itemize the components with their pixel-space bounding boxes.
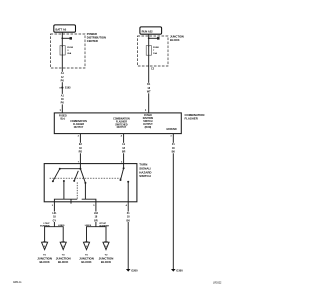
- svg-text:BLOCK: BLOCK: [101, 260, 112, 264]
- label turn signal/hazard switch: [139, 163, 151, 179]
- wire label Z1 18 BK: [125, 212, 131, 223]
- mechanical link (dashed vertical): [76, 182, 78, 199]
- contact node: [52, 180, 54, 182]
- svg-text:BLOCK: BLOCK: [170, 38, 180, 42]
- svg-text:G200: G200: [131, 269, 138, 273]
- svg-text:LR0322: LR0322: [213, 282, 222, 285]
- svg-text:BUMPER: BUMPER: [100, 225, 110, 227]
- ground G200: [126, 269, 138, 273]
- wire pdc to flasher: [61, 68, 63, 113]
- svg-text:JUNCTION: JUNCTION: [170, 35, 184, 39]
- svg-text:3: 3: [52, 205, 54, 207]
- wire batt to fuse: [61, 32, 63, 47]
- switch arm left: [53, 169, 60, 182]
- svg-text:BUMPER: BUMPER: [40, 225, 50, 227]
- svg-text:L61: L61: [52, 212, 57, 215]
- svg-text:FLASHER: FLASHER: [116, 120, 127, 123]
- svg-text:PK: PK: [61, 102, 65, 105]
- svg-text:4: 4: [126, 204, 128, 207]
- label to junction block 2: [56, 255, 71, 264]
- splice S163: [59, 87, 71, 90]
- battery feed BATT A0: [54, 25, 76, 32]
- wire internal bottom left: [54, 199, 77, 202]
- svg-text:LINES: LINES: [85, 225, 92, 227]
- svg-text:DISTRIBUTION: DISTRIBUTION: [87, 36, 106, 40]
- wire flasher output to switch: [79, 134, 81, 164]
- label junction block: [170, 35, 184, 43]
- svg-text:G300: G300: [176, 269, 183, 273]
- svg-text:FUSED: FUSED: [59, 116, 67, 118]
- svg-text:L62: L62: [94, 212, 99, 215]
- pin label fused ignition switch output (run): [143, 115, 154, 129]
- svg-text:5: 5: [93, 205, 95, 207]
- wire left turn output: [53, 202, 55, 227]
- label to junction block 4: [99, 255, 114, 264]
- node split left: [45, 227, 64, 242]
- svg-text:BR: BR: [122, 150, 126, 153]
- svg-text:CENTER: CENTER: [87, 39, 98, 43]
- svg-text:LINES: LINES: [58, 225, 65, 227]
- svg-text:OUTPUT: OUTPUT: [143, 124, 153, 126]
- svg-text:BATT A0: BATT A0: [56, 27, 67, 31]
- wire flasher switched output to switch: [123, 134, 125, 164]
- pin label fused B(+): [59, 116, 67, 121]
- svg-text:FLASHER: FLASHER: [73, 123, 84, 126]
- wire switch ground to G200: [127, 202, 129, 269]
- contact node: [63, 180, 65, 182]
- wire internal bottom right: [82, 199, 96, 202]
- svg-text:8: 8: [59, 88, 61, 90]
- svg-text:GY: GY: [53, 219, 57, 222]
- wire fuse to jb edge: [148, 55, 150, 66]
- wire label D1 18 WT: [146, 83, 152, 94]
- wire label A1 18 PK: [59, 94, 65, 105]
- pin label combination flasher switched output: [113, 117, 130, 129]
- svg-text:COMBINATION: COMBINATION: [113, 117, 130, 120]
- wire flasher ground to G300: [172, 134, 174, 269]
- combination flasher U1: [54, 113, 181, 134]
- svg-text:BLOCK: BLOCK: [81, 260, 92, 264]
- switch internal: pin 2 drop: [123, 164, 125, 169]
- fuse value label: [153, 47, 159, 55]
- svg-text:PK: PK: [61, 79, 65, 82]
- svg-text:FUSE: FUSE: [153, 47, 159, 49]
- svg-text:WT: WT: [147, 90, 151, 93]
- svg-text:SWITCHED: SWITCHED: [115, 124, 128, 126]
- contact node: [84, 182, 86, 184]
- ignition feed RUN A22: [140, 27, 162, 34]
- wire run to fuse: [148, 34, 150, 46]
- fuse F7 10A: [146, 46, 151, 56]
- svg-text:OUTPUT: OUTPUT: [117, 127, 127, 129]
- svg-text:4: 4: [121, 134, 123, 137]
- wire label Z1 18 BK: [170, 143, 176, 154]
- svg-text:(RUN): (RUN): [145, 127, 152, 129]
- stub pin 8: [70, 199, 72, 203]
- svg-text:7: 7: [153, 50, 155, 52]
- svg-text:3: 3: [170, 135, 172, 137]
- wire jb to flasher: [148, 66, 150, 113]
- svg-text:IGNITION: IGNITION: [143, 118, 154, 120]
- wire contact drop: [63, 181, 65, 199]
- branch label rt/up bumper: [100, 223, 110, 228]
- svg-text:POWER: POWER: [87, 32, 97, 36]
- node junction in PDC: [61, 37, 72, 40]
- contact node: [120, 179, 122, 181]
- svg-text:GROUND: GROUND: [166, 129, 177, 131]
- label to junction block 3: [79, 255, 94, 264]
- wire label L61 18 GY: [51, 212, 57, 223]
- svg-text:B(+): B(+): [61, 118, 66, 120]
- svg-text:10A: 10A: [153, 52, 157, 55]
- node: [123, 167, 125, 169]
- wire contact drop: [84, 183, 86, 199]
- wire label L62 18 BR: [93, 212, 99, 223]
- connector C (to junction block): [83, 242, 89, 250]
- wire ground leg: [127, 182, 129, 202]
- svg-text:RD: RD: [79, 150, 83, 153]
- svg-text:SWITCH: SWITCH: [143, 121, 153, 123]
- svg-text:BLOCK: BLOCK: [58, 260, 69, 264]
- switch arm center: [74, 171, 78, 181]
- svg-text:S163: S163: [65, 87, 71, 90]
- svg-text:COMBINATION: COMBINATION: [70, 120, 87, 123]
- connector B (to junction block): [60, 242, 66, 250]
- junction block (dashed box): [138, 36, 169, 66]
- svg-text:BLOCK: BLOCK: [39, 260, 50, 264]
- fuse F3 20A: [60, 46, 65, 55]
- svg-text:2: 2: [78, 135, 80, 137]
- node split right: [87, 227, 107, 242]
- node junction in JB: [148, 37, 160, 40]
- connector A (to junction block): [42, 242, 48, 250]
- svg-text:SWITCH: SWITCH: [139, 174, 150, 178]
- svg-text:OUTPUT: OUTPUT: [74, 127, 84, 129]
- svg-text:0284-11: 0284-11: [13, 281, 22, 284]
- wire label A1 12 PK: [59, 72, 65, 83]
- fuse value label: [67, 47, 73, 55]
- svg-text:BK: BK: [172, 150, 176, 153]
- mechanical linkage (dashed horizontal): [50, 177, 122, 179]
- node ground leg top: [127, 181, 129, 183]
- svg-text:3: 3: [67, 50, 69, 52]
- label combination flasher (outside): [185, 113, 205, 120]
- svg-text:1: 1: [60, 109, 62, 112]
- switch arm hazard: [121, 168, 124, 180]
- svg-text:RUN A22: RUN A22: [142, 29, 154, 33]
- wire internal bus: [60, 168, 81, 170]
- switch internal: pin 7 drop: [79, 164, 81, 169]
- svg-text:20A: 20A: [67, 52, 71, 55]
- label to junction block 1: [37, 255, 52, 264]
- turn signal / hazard switch S1: [44, 164, 137, 202]
- switch arm right: [80, 169, 85, 183]
- wire fuse to pdc edge: [61, 55, 63, 68]
- svg-text:C2: C2: [151, 67, 155, 70]
- wire right turn output: [95, 202, 97, 227]
- ground G300: [171, 269, 183, 273]
- label power distribution center: [87, 32, 106, 43]
- contact node: [73, 180, 75, 182]
- svg-text:FUSED: FUSED: [144, 115, 152, 117]
- svg-text:FUSE: FUSE: [67, 47, 73, 49]
- node: [59, 168, 61, 170]
- wire label E2 18 RD: [77, 143, 83, 154]
- branch label lt/up bumper: [40, 223, 50, 228]
- svg-text:1: 1: [145, 109, 147, 112]
- svg-text:FLASHER: FLASHER: [185, 117, 198, 121]
- connector D (to junction block): [103, 242, 109, 250]
- wire label L9 18 BR: [121, 143, 127, 154]
- power distribution center (dashed box): [51, 34, 86, 68]
- pin label combination flasher output: [70, 120, 87, 129]
- svg-text:BR: BR: [94, 219, 98, 222]
- node: [79, 168, 81, 170]
- svg-text:BK: BK: [126, 219, 130, 222]
